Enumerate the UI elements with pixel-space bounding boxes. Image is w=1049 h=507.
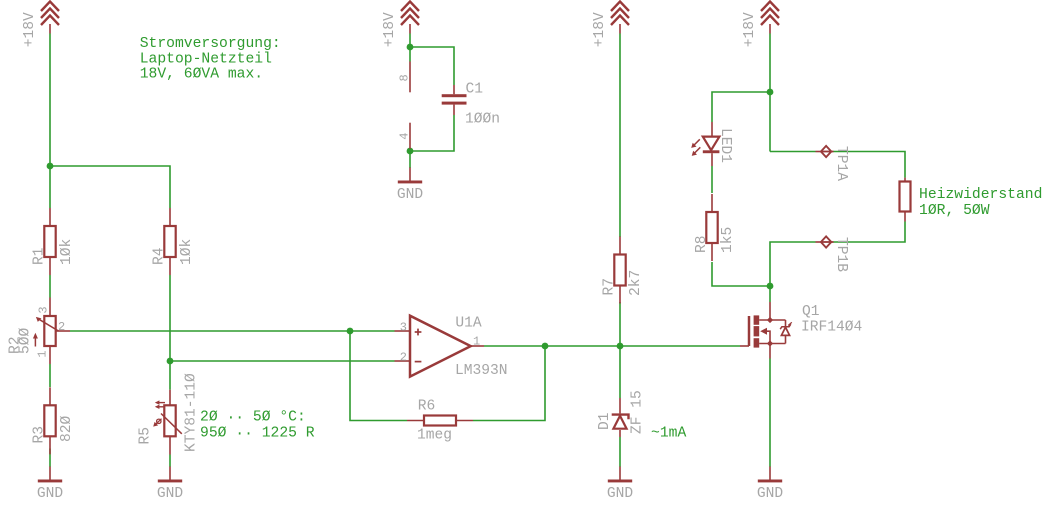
svg-text:R4: R4 — [152, 247, 168, 265]
svg-text:3: 3 — [400, 321, 407, 335]
svg-text:1meg: 1meg — [417, 428, 452, 444]
wire +18V to R4 branch — [50, 166, 170, 208]
wire feedback to R6 left — [350, 331, 407, 421]
wire to TP1A — [770, 151, 816, 153]
resistor R1 10k — [32, 208, 75, 275]
transistor Q1 IRF1404 n-channel MOSFET — [740, 302, 863, 359]
svg-text:GND: GND — [157, 486, 184, 502]
svg-text:Stromversorgung:: Stromversorgung: — [140, 36, 281, 52]
svg-text:R1: R1 — [32, 247, 48, 265]
wire R7 to D1, output tap — [619, 302, 621, 398]
op-amp power pin 4 — [398, 123, 412, 149]
svg-text:GND: GND — [37, 486, 64, 502]
svg-text:4: 4 — [398, 132, 412, 139]
svg-text:82Ø: 82Ø — [59, 415, 75, 442]
svg-text:R3: R3 — [32, 426, 48, 444]
ground GND (C1) — [397, 168, 424, 203]
wire R1 to R2 — [49, 275, 51, 298]
ground GND (R5 column) — [157, 467, 184, 502]
wire divider node to op-amp inverting input — [170, 360, 395, 362]
wire R6 right to output node — [473, 346, 545, 421]
wire heater resistor to TP1B — [834, 222, 906, 243]
wire D1 to ground — [619, 437, 621, 467]
svg-text:+18V: +18V — [22, 12, 38, 47]
op-amp power pin 8 — [398, 62, 412, 93]
svg-text:3: 3 — [36, 306, 50, 313]
resistor R4 10k — [152, 208, 195, 275]
wire Q1 source to ground — [769, 359, 771, 467]
wire TP1B to drain node — [770, 242, 816, 286]
svg-text:2k7: 2k7 — [628, 270, 644, 296]
ground GND (Q1 source) — [757, 467, 784, 502]
svg-text:+18V: +18V — [742, 12, 758, 47]
svg-text:1: 1 — [36, 350, 50, 357]
wire +18V branch to LED1 — [712, 92, 770, 122]
wire R5 to ground — [169, 455, 171, 467]
wire R2 wiper to op-amp non-inverting input — [70, 330, 395, 332]
resistor heater element 10R 50W — [900, 178, 911, 222]
svg-text:+18V: +18V — [382, 12, 398, 47]
wire +18V down to R7 — [619, 34, 621, 238]
zener diode D1 ZF 15 — [597, 390, 646, 437]
svg-text:Laptop-Netzteil: Laptop-Netzteil — [140, 51, 272, 67]
wire drain node to Q1 drain — [769, 286, 771, 302]
svg-text:2: 2 — [400, 350, 407, 364]
svg-text:KTY81-11Ø: KTY81-11Ø — [184, 373, 200, 452]
potentiometer R2 500 — [7, 298, 70, 365]
resistor R6 1meg — [407, 399, 473, 444]
resistor R8 1k5 — [694, 194, 736, 261]
svg-text:LED1: LED1 — [717, 128, 733, 163]
svg-text:R5: R5 — [138, 427, 154, 445]
svg-text:TP1B: TP1B — [833, 237, 849, 272]
svg-text:LM393N: LM393N — [455, 363, 508, 379]
op-amp U1A LM393N — [395, 316, 508, 380]
wire C1 bottom to ground net — [410, 115, 454, 151]
resistor R3 820 — [32, 387, 75, 454]
svg-text:8: 8 — [398, 74, 412, 81]
wire op-amp output to MOSFET gate — [484, 345, 740, 347]
wire +18V left rail down to R1 — [49, 34, 51, 209]
wire R3 to ground — [49, 449, 51, 467]
junction +18V / LED branch — [767, 89, 774, 96]
wire R2 to R3 — [49, 364, 51, 387]
junction feedback / non-inverting input — [347, 328, 354, 335]
svg-text:+18V: +18V — [592, 12, 608, 47]
svg-text:IRF14Ø4: IRF14Ø4 — [801, 320, 863, 336]
svg-text:95Ø .. 1225 R: 95Ø .. 1225 R — [200, 424, 315, 442]
ground GND (D1 column) — [607, 467, 634, 502]
wire LED1 to R8 — [711, 166, 713, 193]
svg-text:C1: C1 — [466, 82, 484, 98]
svg-text:~1mA: ~1mA — [651, 426, 686, 442]
wire R4 to R5 — [169, 275, 171, 390]
temperature sensor R5 KTY81-110 — [138, 373, 200, 455]
svg-text:GND: GND — [757, 486, 784, 502]
svg-text:1Øk: 1Øk — [59, 238, 75, 265]
svg-text:Q1: Q1 — [802, 304, 820, 320]
wire +18V to op-amp power pin 8 — [409, 34, 411, 62]
svg-text:R8: R8 — [694, 235, 710, 253]
svg-text:1ØØn: 1ØØn — [465, 112, 500, 128]
junction R8 / TP1B / drain — [767, 283, 774, 290]
svg-text:1ØR, 5ØW: 1ØR, 5ØW — [919, 203, 990, 219]
wire TP1A to heater resistor — [834, 152, 906, 178]
svg-text:R6: R6 — [418, 399, 436, 415]
svg-text:GND: GND — [607, 486, 634, 502]
svg-text:1k5: 1k5 — [720, 227, 736, 253]
LED LED1 — [691, 122, 733, 166]
wire +18V to C1 top — [410, 47, 454, 85]
junction output / R7-D1 node — [617, 343, 624, 350]
junction +18V / C1 — [407, 44, 414, 51]
svg-text:R7: R7 — [602, 278, 618, 296]
svg-text:TP1A: TP1A — [833, 146, 849, 181]
junction op-amp pin 4 / C1 / ground — [407, 148, 414, 155]
junction +18V rail / R4 branch — [47, 163, 54, 170]
svg-text:2: 2 — [58, 320, 65, 334]
power +18V supply symbol (R7 column) — [592, 2, 629, 48]
capacitor C1 100n — [442, 82, 500, 128]
wire R8 to drain node — [712, 262, 770, 286]
test point TP1B — [816, 236, 850, 272]
power +18V supply symbol (left column) — [22, 2, 59, 48]
svg-text:ZF 15: ZF 15 — [630, 390, 646, 434]
power +18V supply symbol (op-amp supply) — [382, 2, 419, 48]
svg-text:5ØØ: 5ØØ — [18, 327, 34, 354]
svg-text:1Øk: 1Øk — [179, 238, 195, 265]
svg-text:GND: GND — [397, 187, 424, 203]
resistor R7 2k7 — [602, 237, 645, 304]
junction output / feedback — [542, 343, 549, 350]
test point TP1A — [816, 146, 850, 181]
svg-text:D1: D1 — [597, 412, 613, 430]
ground GND (R3 column) — [37, 467, 64, 502]
wire +18V right rail — [769, 34, 771, 93]
svg-text:U1A: U1A — [455, 316, 482, 332]
svg-text:18V, 6ØVA max.: 18V, 6ØVA max. — [140, 67, 263, 83]
svg-text:Heizwiderstand: Heizwiderstand — [919, 187, 1042, 203]
wire +18V rail to TP1A row — [769, 92, 771, 152]
junction R4/R5 divider node — [167, 358, 174, 365]
power +18V supply symbol (output stage) — [742, 2, 779, 48]
wire to GND below C1 — [409, 151, 411, 168]
svg-text:1: 1 — [473, 334, 480, 348]
